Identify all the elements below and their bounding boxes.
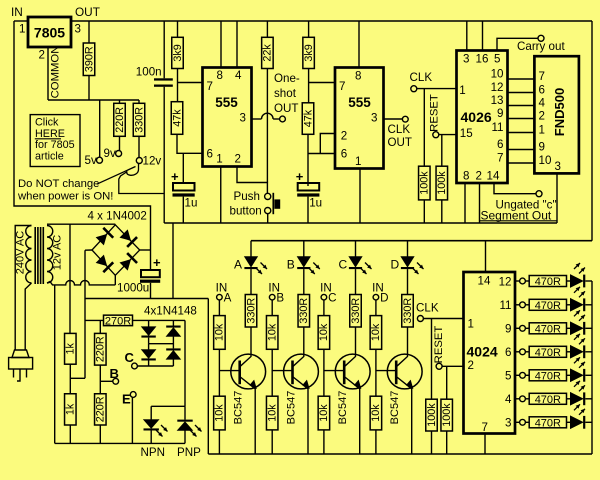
svg-text:D: D (380, 291, 388, 304)
svg-text:3: 3 (505, 417, 511, 430)
svg-text:9: 9 (497, 107, 503, 120)
svg-text:5: 5 (494, 53, 500, 66)
svg-text:330R: 330R (245, 298, 257, 324)
svg-text:4x1N4148: 4x1N4148 (144, 305, 197, 318)
svg-text:PNP: PNP (177, 446, 201, 459)
svg-text:470R: 470R (535, 300, 561, 312)
svg-text:470R: 470R (535, 370, 561, 382)
svg-text:1: 1 (539, 124, 545, 137)
svg-text:330R: 330R (298, 298, 310, 324)
svg-text:OUT: OUT (388, 136, 412, 149)
svg-text:10: 10 (539, 154, 552, 167)
svg-text:100n: 100n (136, 66, 162, 79)
svg-text:1u: 1u (185, 197, 198, 210)
svg-text:11: 11 (491, 121, 503, 134)
svg-text:3: 3 (555, 160, 561, 173)
svg-text:2: 2 (468, 359, 474, 372)
svg-text:47k: 47k (302, 109, 314, 127)
svg-text:5: 5 (505, 370, 511, 383)
svg-text:8: 8 (217, 69, 223, 82)
svg-text:7: 7 (339, 80, 345, 93)
svg-text:2: 2 (235, 153, 241, 166)
svg-text:One-: One- (274, 72, 300, 85)
svg-text:6: 6 (505, 346, 511, 359)
svg-text:9: 9 (505, 323, 511, 336)
svg-text:12: 12 (491, 81, 504, 94)
svg-text:A: A (234, 258, 242, 272)
svg-text:220R: 220R (95, 396, 107, 422)
svg-text:+: + (171, 169, 179, 184)
svg-text:C: C (339, 258, 348, 272)
svg-text:9: 9 (539, 141, 545, 154)
svg-text:1: 1 (468, 317, 474, 330)
svg-text:1u: 1u (309, 197, 322, 210)
svg-text:270R: 270R (105, 315, 131, 327)
svg-text:470R: 470R (535, 394, 561, 406)
svg-text:12v AC: 12v AC (52, 235, 64, 271)
svg-text:Click: Click (35, 117, 59, 129)
svg-text:10k: 10k (370, 404, 382, 422)
svg-text:5v: 5v (85, 154, 97, 167)
svg-text:390R: 390R (83, 46, 95, 72)
svg-text:12: 12 (499, 275, 512, 288)
svg-text:FND500: FND500 (552, 88, 567, 136)
svg-text:Do NOT change: Do NOT change (18, 178, 99, 190)
svg-text:555: 555 (215, 95, 238, 110)
svg-text:470R: 470R (535, 417, 561, 429)
svg-text:BC547: BC547 (233, 391, 245, 425)
svg-text:NPN: NPN (141, 446, 165, 459)
svg-text:10k: 10k (267, 323, 279, 341)
svg-text:4: 4 (235, 69, 242, 82)
svg-text:IN: IN (11, 5, 23, 19)
svg-text:10k: 10k (214, 404, 226, 422)
svg-text:240V AC: 240V AC (15, 231, 27, 274)
svg-text:8: 8 (463, 170, 469, 183)
svg-text:100k: 100k (419, 171, 431, 195)
svg-text:12v: 12v (143, 155, 162, 168)
svg-text:10k: 10k (318, 323, 330, 341)
svg-text:B: B (276, 291, 284, 304)
svg-text:Carry out: Carry out (517, 40, 565, 53)
svg-text:4 x 1N4002: 4 x 1N4002 (88, 210, 147, 223)
svg-text:D: D (391, 258, 400, 272)
svg-text:14: 14 (478, 275, 491, 288)
svg-text:100k: 100k (426, 403, 438, 427)
svg-text:for 7805: for 7805 (35, 139, 75, 151)
svg-text:4: 4 (539, 97, 546, 110)
svg-text:14: 14 (487, 170, 500, 183)
svg-text:3: 3 (463, 53, 469, 66)
svg-text:+: + (153, 255, 161, 270)
svg-text:470R: 470R (535, 347, 561, 359)
svg-text:9v: 9v (104, 147, 116, 160)
svg-text:7: 7 (539, 70, 545, 83)
svg-text:1000u: 1000u (117, 281, 149, 294)
svg-text:1: 1 (216, 153, 222, 166)
svg-text:1: 1 (355, 155, 361, 168)
svg-text:13: 13 (491, 94, 504, 107)
svg-text:10: 10 (491, 67, 504, 80)
svg-text:B: B (110, 366, 119, 381)
svg-text:4024: 4024 (467, 344, 498, 360)
svg-text:100k: 100k (441, 403, 453, 427)
svg-text:OUT: OUT (274, 102, 298, 115)
svg-text:1: 1 (19, 23, 25, 36)
svg-text:+: + (296, 169, 304, 184)
svg-text:BC547: BC547 (337, 391, 349, 425)
svg-text:CLK: CLK (388, 123, 411, 136)
svg-text:A: A (224, 291, 232, 304)
svg-text:2: 2 (341, 130, 347, 143)
svg-text:6: 6 (341, 148, 347, 161)
svg-text:220R: 220R (114, 107, 126, 133)
svg-text:330R: 330R (133, 107, 145, 133)
svg-text:220R: 220R (95, 336, 107, 362)
svg-text:C: C (328, 291, 336, 304)
svg-text:330R: 330R (402, 298, 414, 324)
svg-text:C: C (125, 350, 135, 365)
svg-text:BC547: BC547 (389, 391, 401, 425)
svg-text:RESET: RESET (428, 94, 440, 132)
svg-text:6: 6 (539, 84, 545, 97)
svg-text:7: 7 (482, 421, 488, 434)
svg-text:shot: shot (274, 87, 297, 100)
svg-text:22k: 22k (262, 44, 274, 62)
svg-text:CLK: CLK (416, 302, 439, 315)
svg-text:16: 16 (476, 53, 489, 66)
svg-text:11: 11 (499, 299, 511, 312)
svg-text:HERE: HERE (35, 128, 65, 140)
svg-text:4026: 4026 (461, 109, 492, 125)
svg-text:2: 2 (476, 170, 482, 183)
svg-text:7: 7 (497, 151, 503, 164)
svg-text:article: article (35, 150, 64, 162)
svg-text:B: B (287, 258, 295, 272)
svg-text:3k9: 3k9 (172, 44, 184, 61)
svg-text:8: 8 (355, 70, 361, 83)
svg-text:button: button (230, 205, 262, 218)
svg-text:6: 6 (207, 148, 213, 161)
svg-text:7805: 7805 (34, 25, 65, 41)
svg-text:3: 3 (75, 23, 81, 36)
svg-text:4: 4 (505, 393, 512, 406)
svg-text:100k: 100k (436, 171, 448, 195)
svg-text:Segment Out: Segment Out (481, 208, 552, 222)
svg-text:E: E (122, 392, 131, 407)
svg-text:2: 2 (39, 49, 45, 62)
svg-text:10k: 10k (214, 323, 226, 341)
svg-text:470R: 470R (535, 323, 561, 335)
svg-text:CLK: CLK (410, 71, 433, 84)
svg-text:3: 3 (371, 112, 377, 125)
svg-text:10k: 10k (370, 323, 382, 341)
svg-text:555: 555 (348, 95, 371, 110)
svg-text:COMMON: COMMON (50, 46, 62, 99)
svg-text:OUT: OUT (75, 5, 100, 19)
svg-text:47k: 47k (171, 109, 183, 127)
svg-text:2: 2 (539, 110, 545, 123)
svg-text:470R: 470R (535, 276, 561, 288)
svg-text:RESET: RESET (433, 326, 445, 364)
svg-text:1k: 1k (65, 342, 77, 354)
svg-text:when power is ON!: when power is ON! (17, 191, 113, 203)
svg-text:7: 7 (207, 80, 213, 93)
svg-text:1k: 1k (65, 403, 77, 415)
svg-text:Push: Push (234, 190, 260, 203)
svg-text:6: 6 (497, 138, 503, 151)
svg-text:10k: 10k (318, 404, 330, 422)
svg-text:BC547: BC547 (285, 391, 297, 425)
svg-text:15: 15 (460, 127, 473, 140)
svg-text:330R: 330R (350, 298, 362, 324)
svg-text:3k9: 3k9 (303, 44, 315, 61)
svg-text:1: 1 (459, 84, 465, 97)
svg-text:10k: 10k (267, 404, 279, 422)
svg-text:3: 3 (240, 112, 246, 125)
